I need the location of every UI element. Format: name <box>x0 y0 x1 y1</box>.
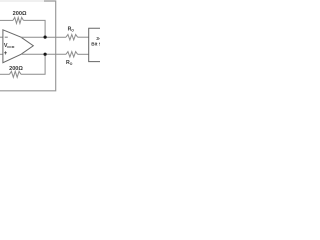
svg-text:Bit S: Bit S <box>91 42 100 47</box>
svg-text:200Ω: 200Ω <box>9 66 23 72</box>
svg-text:O: O <box>71 29 74 33</box>
svg-text:OCM: OCM <box>7 45 15 49</box>
svg-text:200Ω: 200Ω <box>13 11 27 17</box>
svg-text:+: + <box>4 51 8 57</box>
svg-text:3-: 3- <box>96 36 100 41</box>
svg-text:O: O <box>70 62 73 66</box>
svg-text:−: − <box>4 35 8 41</box>
